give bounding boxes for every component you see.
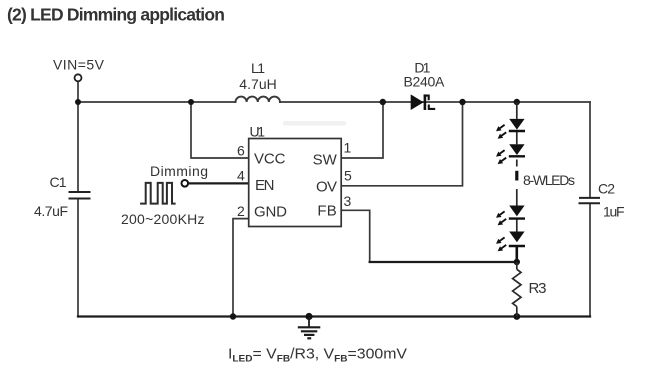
- svg-text:EN: EN: [255, 177, 275, 194]
- svg-text:1uF: 1uF: [603, 204, 625, 220]
- svg-text:VCC: VCC: [254, 151, 286, 168]
- svg-text:200~200KHz: 200~200KHz: [121, 211, 205, 227]
- svg-text:4.7uH: 4.7uH: [239, 76, 276, 92]
- svg-text:VIN=5V: VIN=5V: [53, 57, 105, 73]
- svg-text:U1: U1: [250, 124, 266, 140]
- svg-text:GND: GND: [254, 204, 287, 221]
- svg-text:4: 4: [237, 168, 245, 184]
- svg-text:6: 6: [237, 143, 245, 159]
- svg-text:1: 1: [344, 140, 352, 156]
- svg-text:(2) LED Dimming application: (2) LED Dimming application: [7, 4, 225, 24]
- svg-text:4.7uF: 4.7uF: [34, 203, 68, 219]
- svg-text:3: 3: [344, 193, 352, 209]
- svg-text:ILED= VFB/R3, VFB=300mV: ILED= VFB/R3, VFB=300mV: [228, 346, 407, 365]
- svg-text:L1: L1: [251, 60, 265, 76]
- svg-text:C2: C2: [598, 181, 615, 197]
- svg-text:OV: OV: [316, 179, 337, 196]
- svg-text:FB: FB: [317, 203, 336, 220]
- svg-text:5: 5: [344, 168, 352, 184]
- svg-text:B240A: B240A: [404, 73, 445, 89]
- svg-text:2: 2: [237, 203, 245, 219]
- svg-text:R3: R3: [529, 280, 547, 297]
- svg-text:Dimming: Dimming: [150, 163, 208, 179]
- svg-text:SW: SW: [313, 152, 338, 169]
- svg-text:C1: C1: [50, 174, 67, 190]
- svg-text:8-WLEDs: 8-WLEDs: [523, 172, 575, 188]
